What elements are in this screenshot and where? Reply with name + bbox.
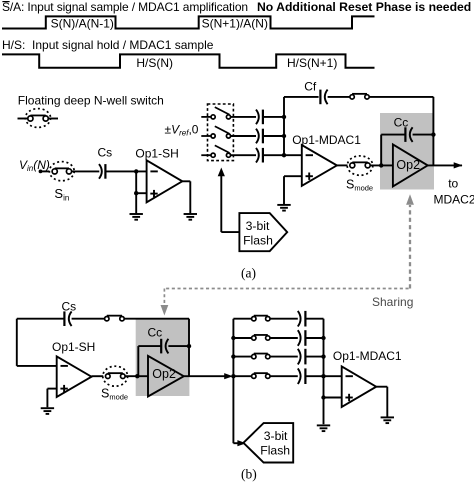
svg-text:S(N+1)/A(N): S(N+1)/A(N) [202,17,268,31]
svg-text:Cs: Cs [98,145,113,159]
svg-text:to: to [448,177,458,191]
svg-text:Op2: Op2 [152,367,176,381]
svg-text:H/S(N+1): H/S(N+1) [287,56,337,70]
svg-text:No Additional Reset Phase is n: No Additional Reset Phase is needed [257,0,471,14]
svg-text:Cc: Cc [148,325,163,339]
svg-text:Cf: Cf [304,79,317,93]
svg-text:Flash: Flash [260,444,290,458]
svg-text:(a): (a) [241,266,256,281]
svg-text:3-bit: 3-bit [264,429,288,443]
svg-text:H/S: Input signal hold / MDAC: H/S: Input signal hold / MDAC1 sample [2,38,214,52]
svg-text:Op1-MDAC1: Op1-MDAC1 [292,133,361,147]
svg-text:Op1-SH: Op1-SH [135,146,178,160]
svg-text:Sharing: Sharing [372,295,413,309]
svg-text:Flash: Flash [243,233,273,247]
svg-text:MDAC2: MDAC2 [434,193,474,207]
svg-text:Op1-MDAC1: Op1-MDAC1 [333,349,402,363]
svg-text:Op1-SH: Op1-SH [52,340,95,354]
svg-text:H/S(N): H/S(N) [136,56,173,70]
svg-text:3-bit: 3-bit [246,219,270,233]
svg-text:Floating deep N-well switch: Floating deep N-well switch [18,94,164,108]
svg-text:Op2: Op2 [396,158,420,172]
svg-text:S(N)/A(N-1): S(N)/A(N-1) [51,17,114,31]
svg-text:S/A: Input signal sample / MDA: S/A: Input signal sample / MDAC1 amplifi… [2,0,248,14]
svg-text:(b): (b) [241,467,257,482]
